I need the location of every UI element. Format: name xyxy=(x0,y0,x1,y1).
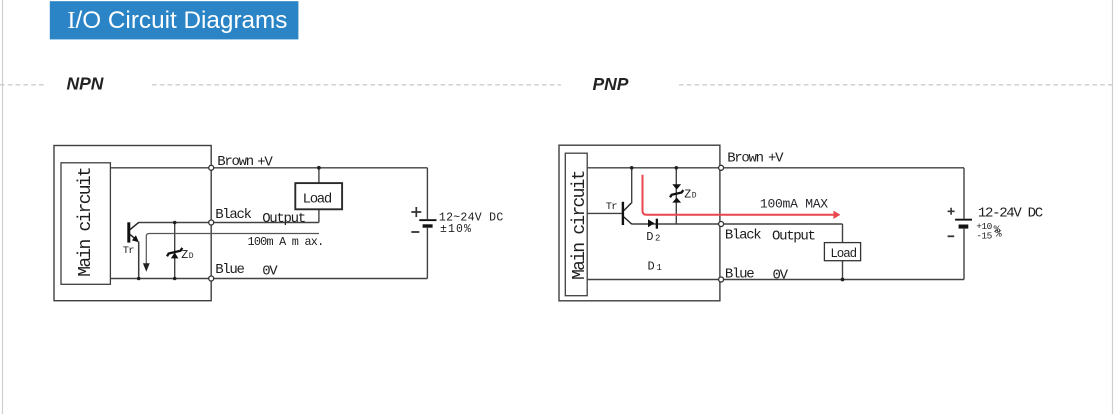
svg-text:Black: Black xyxy=(725,227,761,243)
svg-text:Output: Output xyxy=(772,228,815,244)
svg-text:Brown: Brown xyxy=(727,150,763,166)
NPN emitter junction dot xyxy=(137,277,141,281)
svg-text:+V: +V xyxy=(768,151,784,167)
svg-text:NPN: NPN xyxy=(67,73,104,93)
NPN emitter arrowhead xyxy=(132,235,139,242)
PNP battery minus sign xyxy=(948,235,955,237)
svg-text:Z: Z xyxy=(684,188,691,201)
PNP transistor Tr bar xyxy=(622,202,624,225)
svg-text:2: 2 xyxy=(655,234,660,244)
svg-text:%: % xyxy=(995,228,1002,240)
PNP load box xyxy=(824,243,860,261)
svg-text:1: 1 xyxy=(657,263,662,273)
section header bar xyxy=(50,1,299,39)
NPN blue 0V wire xyxy=(110,278,427,280)
dashed separator xyxy=(0,84,1113,86)
svg-text:D: D xyxy=(646,230,653,244)
NPN transistor Tr bar xyxy=(127,222,130,242)
svg-text:100m A m ax.: 100m A m ax. xyxy=(248,235,324,249)
PNP transistor emitter xyxy=(624,203,632,211)
svg-text:Blue: Blue xyxy=(725,267,754,283)
PNP red current path xyxy=(643,175,834,215)
NPN zener diode ZD xyxy=(167,248,182,259)
PNP black output wire xyxy=(632,223,843,225)
svg-text:Tr: Tr xyxy=(123,245,134,257)
svg-text:Output: Output xyxy=(262,211,305,227)
PNP load junction dot xyxy=(841,278,845,282)
PNP terminal Blue xyxy=(719,277,724,282)
NPN zener wire xyxy=(174,223,176,279)
svg-text:I/O Circuit Diagrams: I/O Circuit Diagrams xyxy=(67,7,287,34)
svg-text:+V: +V xyxy=(257,154,273,170)
NPN transistor collector xyxy=(130,222,139,229)
NPN zener top junction dot xyxy=(173,221,177,225)
NPN main-circuit inner box xyxy=(61,163,110,284)
PNP main-circuit inner box xyxy=(565,153,587,296)
PNP diode D2 xyxy=(648,219,654,227)
svg-text:PNP: PNP xyxy=(593,74,629,94)
NPN current arrowhead xyxy=(143,263,150,272)
NPN battery positive plate xyxy=(419,219,436,221)
NPN right loop wire xyxy=(426,168,428,219)
svg-text:Main circuit: Main circuit xyxy=(76,168,96,277)
PNP brown +V wire xyxy=(587,167,964,169)
svg-text:Load: Load xyxy=(303,191,332,207)
NPN sensor outer box xyxy=(54,146,211,301)
svg-text:0V: 0V xyxy=(262,264,278,280)
PNP battery negative plate xyxy=(959,225,969,229)
svg-text:D: D xyxy=(189,252,194,261)
NPN terminal Blue xyxy=(209,276,214,281)
svg-text:Brown: Brown xyxy=(217,154,253,170)
PNP terminal Brown xyxy=(719,165,724,170)
svg-text:Tr: Tr xyxy=(606,201,617,213)
svg-text:0V: 0V xyxy=(773,267,789,283)
NPN brown +V wire xyxy=(110,167,427,169)
PNP zener top junction dot xyxy=(675,166,679,170)
svg-text:Load: Load xyxy=(830,247,856,261)
svg-text:-15: -15 xyxy=(976,230,992,241)
NPN junction node on +V xyxy=(317,166,321,170)
PNP battery plus sign xyxy=(948,208,955,215)
svg-text:D: D xyxy=(648,259,655,273)
PNP zener wire xyxy=(675,168,677,224)
svg-text:Z: Z xyxy=(181,249,188,262)
NPN black output wire xyxy=(139,222,319,224)
NPN load box xyxy=(295,183,342,209)
NPN current path 100mA xyxy=(146,234,319,264)
PNP load drop wire xyxy=(842,224,844,280)
NPN battery negative plate xyxy=(423,224,433,227)
svg-text:±10%: ±10% xyxy=(440,223,472,236)
PNP emitter wire xyxy=(631,168,633,204)
PNP red arrowhead xyxy=(833,211,840,219)
PNP terminal Black xyxy=(719,222,724,227)
NPN zener bottom junction dot xyxy=(173,277,177,281)
svg-text:Black: Black xyxy=(215,207,251,223)
svg-text:100mA MAX: 100mA MAX xyxy=(760,196,828,211)
svg-text:12-24V DC: 12-24V DC xyxy=(978,206,1043,222)
PNP transistor collector xyxy=(624,217,632,224)
NPN battery minus sign xyxy=(411,231,419,233)
PNP right loop wire xyxy=(963,168,965,219)
NPN terminal Brown xyxy=(209,165,214,170)
NPN emitter wire xyxy=(138,242,140,279)
svg-text:Blue: Blue xyxy=(215,262,244,278)
NPN terminal Black xyxy=(209,220,214,225)
right page border xyxy=(1112,0,1114,414)
svg-text:D: D xyxy=(692,191,697,200)
NPN load drop wire xyxy=(318,168,320,223)
NPN transistor emitter xyxy=(130,234,136,239)
NPN battery plus sign xyxy=(411,207,421,217)
PNP battery positive plate xyxy=(955,219,972,221)
svg-text:Main circuit: Main circuit xyxy=(570,171,590,280)
PNP emitter junction dot xyxy=(630,166,634,170)
PNP base wire xyxy=(587,212,622,214)
left page border xyxy=(2,0,4,414)
PNP zener diode ZD xyxy=(670,184,683,202)
PNP sensor outer box xyxy=(559,145,720,301)
PNP blue 0V wire xyxy=(587,279,964,281)
